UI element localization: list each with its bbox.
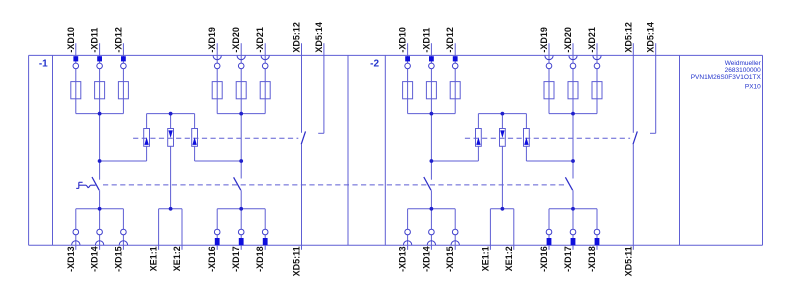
svg-text:PVN1M26S0F3V1O1TX: PVN1M26S0F3V1O1TX	[691, 74, 762, 81]
svg-text:XE1:1: XE1:1	[149, 246, 159, 271]
svg-text:-XD21: -XD21	[255, 27, 265, 53]
svg-text:XD5:12: XD5:12	[292, 22, 302, 53]
svg-text:-XD17: -XD17	[563, 246, 573, 272]
svg-text:-XD15: -XD15	[445, 246, 455, 272]
svg-text:-XD14: -XD14	[421, 246, 431, 272]
svg-text:-XD21: -XD21	[587, 27, 597, 53]
svg-text:-XD13: -XD13	[398, 246, 408, 272]
svg-text:PX10: PX10	[745, 83, 761, 90]
svg-text:-XD12: -XD12	[113, 27, 123, 53]
svg-text:-2: -2	[370, 58, 379, 69]
svg-text:XE1:2: XE1:2	[504, 246, 514, 271]
svg-text:2683100000: 2683100000	[725, 67, 762, 74]
svg-text:XE1:1: XE1:1	[480, 246, 490, 271]
svg-text:XD5:11: XD5:11	[292, 246, 302, 276]
svg-text:-XD11: -XD11	[90, 28, 100, 53]
svg-text:-XD20: -XD20	[231, 27, 241, 53]
svg-text:XD5:11: XD5:11	[623, 246, 633, 276]
svg-text:-XD18: -XD18	[255, 246, 265, 272]
svg-text:-XD16: -XD16	[207, 246, 217, 272]
svg-text:XD5:14: XD5:14	[314, 22, 324, 53]
svg-text:-XD13: -XD13	[66, 246, 76, 272]
svg-text:-XD11: -XD11	[421, 28, 431, 53]
svg-text:-XD16: -XD16	[539, 246, 549, 272]
svg-text:-XD18: -XD18	[587, 246, 597, 272]
svg-text:-XD14: -XD14	[90, 246, 100, 272]
svg-text:-XD12: -XD12	[445, 27, 455, 53]
svg-text:XE1:2: XE1:2	[172, 246, 182, 271]
svg-text:XD5:12: XD5:12	[623, 22, 633, 53]
svg-text:-XD19: -XD19	[539, 27, 549, 53]
svg-text:-1: -1	[39, 58, 48, 69]
svg-text:XD5:14: XD5:14	[646, 22, 656, 53]
svg-text:-XD20: -XD20	[563, 27, 573, 53]
svg-text:-XD10: -XD10	[398, 27, 408, 53]
svg-text:-XD15: -XD15	[113, 246, 123, 272]
svg-text:-XD19: -XD19	[207, 27, 217, 53]
svg-text:-XD17: -XD17	[231, 246, 241, 272]
svg-text:-XD10: -XD10	[66, 27, 76, 53]
